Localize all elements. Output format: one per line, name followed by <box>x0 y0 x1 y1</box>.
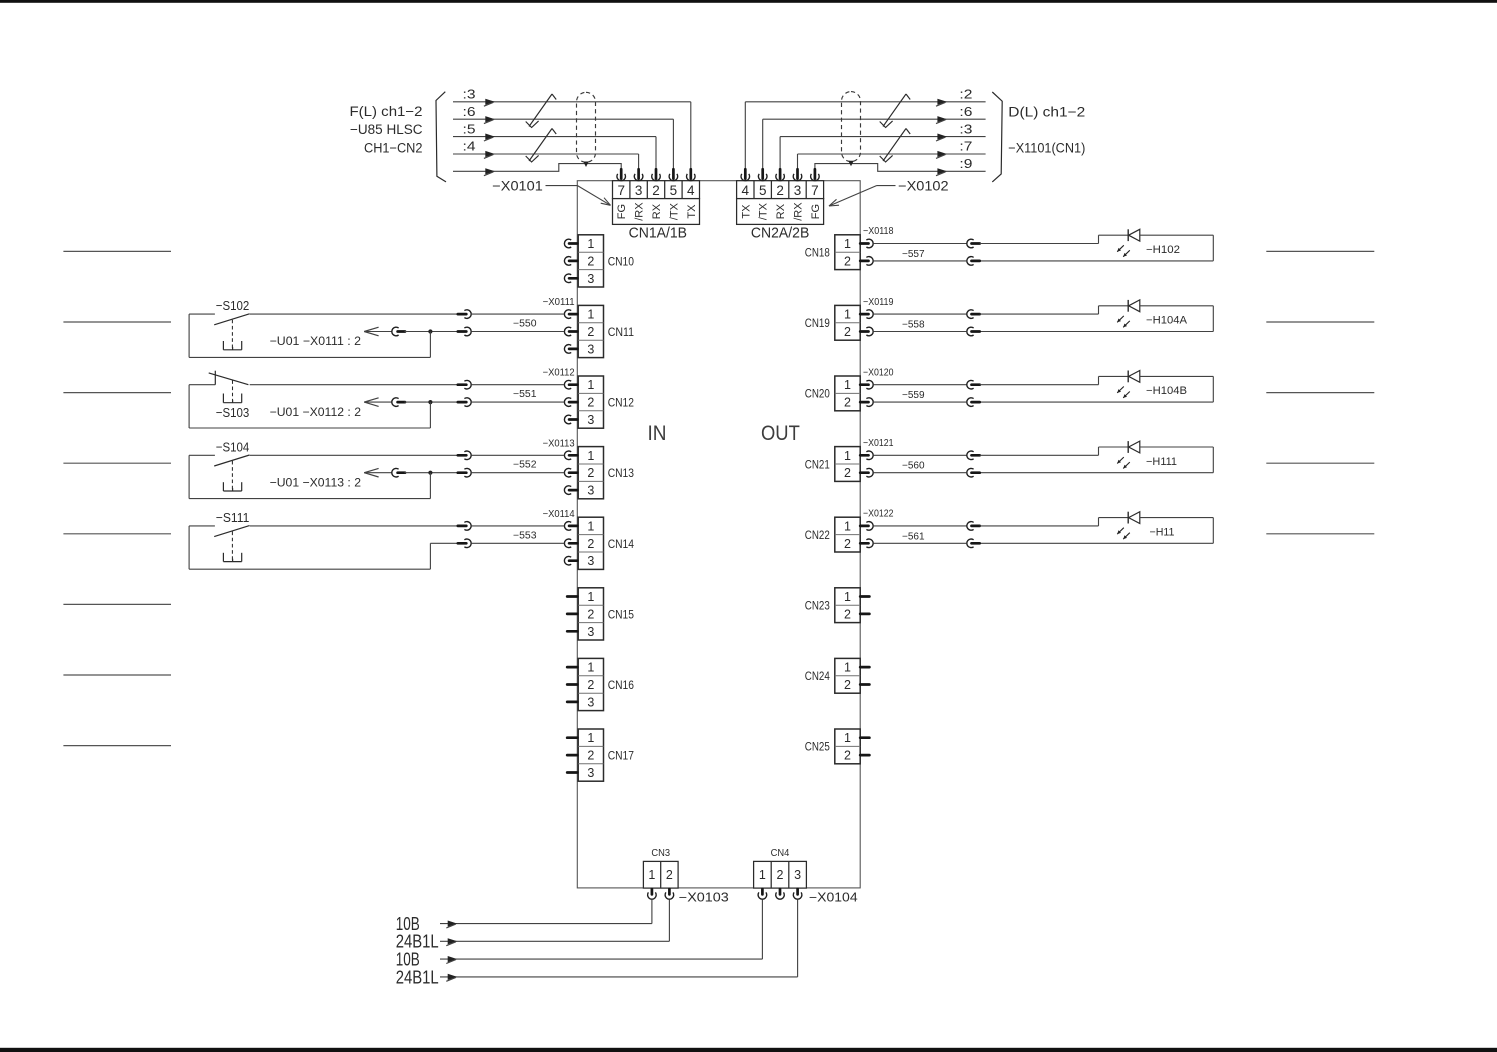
svg-text:−X0111: −X0111 <box>543 297 575 308</box>
svg-text:CN19: CN19 <box>805 316 830 330</box>
svg-text:−U01 −X0112 : 2: −U01 −X0112 : 2 <box>270 405 362 419</box>
svg-text:3: 3 <box>794 183 802 198</box>
svg-text:1: 1 <box>587 731 594 745</box>
svg-text:2: 2 <box>776 183 784 198</box>
svg-text:CN11: CN11 <box>608 325 635 339</box>
svg-text:2: 2 <box>777 868 784 882</box>
svg-text:CN10: CN10 <box>608 254 635 268</box>
svg-text:F(L) ch1−2: F(L) ch1−2 <box>350 104 423 119</box>
svg-text:2: 2 <box>844 325 851 339</box>
svg-text:−H11: −H11 <box>1150 526 1175 538</box>
svg-text:−S104: −S104 <box>216 439 250 454</box>
svg-text:1: 1 <box>844 449 851 463</box>
svg-text:−U85 HLSC: −U85 HLSC <box>350 122 423 137</box>
svg-text:4: 4 <box>742 183 750 198</box>
svg-text::5: :5 <box>463 121 476 136</box>
svg-text:/RX: /RX <box>634 202 646 221</box>
svg-text:3: 3 <box>587 272 594 286</box>
svg-text:−X0118: −X0118 <box>863 226 894 237</box>
svg-text:−X0119: −X0119 <box>863 297 894 308</box>
svg-text:1: 1 <box>844 661 851 675</box>
svg-text:/TX: /TX <box>758 202 770 220</box>
svg-text:2: 2 <box>587 607 594 621</box>
svg-text:3: 3 <box>635 183 643 198</box>
svg-text:2: 2 <box>587 749 594 763</box>
svg-text:CN15: CN15 <box>608 607 635 621</box>
svg-text:2: 2 <box>844 678 851 692</box>
svg-text::2: :2 <box>959 87 972 102</box>
svg-text:−560: −560 <box>902 461 925 472</box>
svg-text:CH1−CN2: CH1−CN2 <box>364 141 423 156</box>
svg-text:−559: −559 <box>902 390 925 401</box>
svg-text:−X0120: −X0120 <box>863 367 894 378</box>
svg-text:1: 1 <box>587 519 594 533</box>
svg-text:TX: TX <box>740 204 752 219</box>
svg-text:3: 3 <box>587 554 594 568</box>
svg-text:−561: −561 <box>902 531 925 542</box>
svg-text:CN20: CN20 <box>805 387 830 401</box>
svg-text:2: 2 <box>844 466 851 480</box>
svg-text:3: 3 <box>587 342 594 356</box>
svg-text:−X0122: −X0122 <box>863 509 894 520</box>
svg-text:1: 1 <box>587 590 594 604</box>
svg-text:−S111: −S111 <box>216 510 250 525</box>
svg-text::4: :4 <box>463 139 476 154</box>
svg-text:−H111: −H111 <box>1146 456 1177 468</box>
svg-text:7: 7 <box>811 183 819 198</box>
svg-text:−S102: −S102 <box>216 298 250 313</box>
svg-text:3: 3 <box>794 868 801 882</box>
svg-text:CN12: CN12 <box>608 396 635 410</box>
svg-text:5: 5 <box>670 183 678 198</box>
svg-text:−X0114: −X0114 <box>543 509 575 520</box>
svg-text:1: 1 <box>844 590 851 604</box>
svg-text:CN13: CN13 <box>608 466 635 480</box>
svg-text:1: 1 <box>844 308 851 322</box>
svg-text::3: :3 <box>463 87 476 102</box>
svg-text:FG: FG <box>810 204 822 219</box>
svg-text:−X0103: −X0103 <box>679 891 729 905</box>
svg-text:3: 3 <box>587 484 594 498</box>
svg-text:−X0113: −X0113 <box>543 438 575 449</box>
svg-text:−557: −557 <box>902 249 925 260</box>
svg-text:24B1L: 24B1L <box>396 967 439 987</box>
svg-text:−X1101(CN1): −X1101(CN1) <box>1008 141 1085 156</box>
svg-text:2: 2 <box>587 325 594 339</box>
svg-text:D(L) ch1−2: D(L) ch1−2 <box>1008 104 1085 119</box>
svg-text:−552: −552 <box>513 460 537 471</box>
svg-text:3: 3 <box>587 625 594 639</box>
svg-text:−X0112: −X0112 <box>543 368 575 379</box>
svg-text:CN25: CN25 <box>805 740 830 754</box>
svg-text:CN23: CN23 <box>805 599 830 613</box>
svg-text::6: :6 <box>463 104 476 119</box>
svg-text::3: :3 <box>959 121 972 136</box>
svg-text:−X0121: −X0121 <box>863 438 894 449</box>
svg-text:2: 2 <box>587 678 594 692</box>
svg-text:CN17: CN17 <box>608 749 635 763</box>
svg-text:−U01 −X0111 : 2: −U01 −X0111 : 2 <box>270 334 362 348</box>
svg-text:2: 2 <box>587 396 594 410</box>
svg-text:CN21: CN21 <box>805 457 830 471</box>
svg-text:−S103: −S103 <box>216 405 250 420</box>
svg-text:−558: −558 <box>902 320 925 331</box>
svg-text:/TX: /TX <box>668 202 680 220</box>
svg-text:1: 1 <box>844 519 851 533</box>
svg-text:CN24: CN24 <box>805 669 830 683</box>
svg-text:1: 1 <box>844 237 851 251</box>
svg-text:1: 1 <box>759 868 766 882</box>
svg-text:−X0104: −X0104 <box>809 891 858 905</box>
svg-text::9: :9 <box>959 156 972 171</box>
svg-text:−U01 −X0113 : 2: −U01 −X0113 : 2 <box>270 475 362 489</box>
svg-text:CN22: CN22 <box>805 528 830 542</box>
svg-text:1: 1 <box>844 378 851 392</box>
svg-text:−551: −551 <box>513 389 537 400</box>
svg-text:2: 2 <box>587 537 594 551</box>
svg-text:1: 1 <box>587 378 594 392</box>
svg-text::6: :6 <box>959 104 972 119</box>
svg-text:2: 2 <box>844 607 851 621</box>
svg-text:2: 2 <box>844 396 851 410</box>
svg-text:CN16: CN16 <box>608 678 635 692</box>
svg-text:CN4: CN4 <box>771 848 790 859</box>
svg-text:TX: TX <box>686 204 698 219</box>
svg-text:1: 1 <box>587 661 594 675</box>
svg-text:2: 2 <box>587 466 594 480</box>
svg-text:/RX: /RX <box>793 202 805 221</box>
svg-text:−550: −550 <box>513 319 537 330</box>
svg-text:3: 3 <box>587 766 594 780</box>
svg-text:CN2A/2B: CN2A/2B <box>751 225 809 242</box>
svg-text:2: 2 <box>666 868 673 882</box>
svg-text:3: 3 <box>587 413 594 427</box>
svg-text:5: 5 <box>759 183 767 198</box>
svg-text:OUT: OUT <box>761 422 800 445</box>
svg-text:1: 1 <box>587 449 594 463</box>
svg-text:−H104B: −H104B <box>1146 385 1187 397</box>
svg-text:2: 2 <box>844 537 851 551</box>
svg-text:1: 1 <box>587 237 594 251</box>
svg-text:FG: FG <box>616 204 628 219</box>
svg-text:CN1A/1B: CN1A/1B <box>629 225 687 242</box>
svg-text:2: 2 <box>844 254 851 268</box>
svg-text:CN18: CN18 <box>805 246 830 260</box>
svg-text:RX: RX <box>775 203 787 219</box>
svg-text:2: 2 <box>652 183 660 198</box>
svg-text:IN: IN <box>648 422 667 445</box>
svg-text:CN3: CN3 <box>651 848 670 859</box>
svg-text:2: 2 <box>587 254 594 268</box>
svg-text:4: 4 <box>687 183 695 198</box>
svg-text:−H104A: −H104A <box>1146 315 1188 327</box>
svg-text:1: 1 <box>587 308 594 322</box>
svg-text:1: 1 <box>648 868 655 882</box>
svg-text:−553: −553 <box>513 530 537 541</box>
svg-text:−X0102: −X0102 <box>898 178 949 193</box>
svg-text:−X0101: −X0101 <box>492 178 543 193</box>
svg-text:7: 7 <box>617 183 625 198</box>
svg-text::7: :7 <box>959 139 972 154</box>
svg-text:−H102: −H102 <box>1146 244 1180 256</box>
svg-text:3: 3 <box>587 695 594 709</box>
svg-text:RX: RX <box>651 203 663 219</box>
svg-text:CN14: CN14 <box>608 537 635 551</box>
svg-text:1: 1 <box>844 731 851 745</box>
svg-text:2: 2 <box>844 749 851 763</box>
